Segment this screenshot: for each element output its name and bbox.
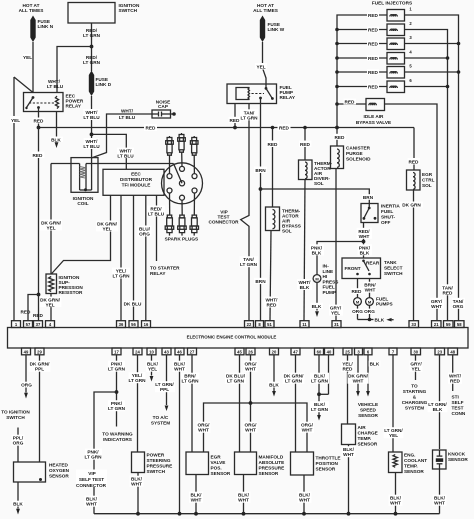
air charge temp sensor xyxy=(342,424,356,445)
svg-text:EGR: EGR xyxy=(211,455,222,460)
engine coolant temp sensor xyxy=(389,452,403,473)
injector 1 xyxy=(387,10,405,22)
svg-text:ORG: ORG xyxy=(13,441,24,446)
wire DK BLU TFI to pin 56 xyxy=(133,195,135,320)
svg-text:ELECTRONIC ENGINE CONTROL MODU: ELECTRONIC ENGINE CONTROL MODULE xyxy=(187,335,277,340)
svg-text:LINK W: LINK W xyxy=(268,27,285,32)
svg-text:BLK: BLK xyxy=(13,502,23,507)
svg-text:CTRL: CTRL xyxy=(422,178,435,183)
svg-text:STEERING: STEERING xyxy=(147,458,171,463)
svg-text:DK GRN: DK GRN xyxy=(402,203,421,208)
svg-text:ORG: ORG xyxy=(21,383,32,388)
pin 49 xyxy=(22,348,31,355)
svg-text:37: 37 xyxy=(36,322,41,327)
svg-text:REAR: REAR xyxy=(366,261,380,266)
pin 22 xyxy=(245,321,254,328)
svg-text:WHT: WHT xyxy=(343,452,354,457)
pin 30 xyxy=(411,348,421,355)
svg-text:PPL: PPL xyxy=(35,367,44,372)
svg-text:TO WARNING: TO WARNING xyxy=(102,432,133,437)
svg-text:LT GRN: LT GRN xyxy=(83,60,101,65)
svg-text:WHT: WHT xyxy=(431,304,442,309)
svg-text:ENG.: ENG. xyxy=(404,453,415,458)
in-line hi press fuel pump xyxy=(313,275,321,283)
svg-text:SELF: SELF xyxy=(452,400,464,405)
svg-text:POS.: POS. xyxy=(211,466,222,471)
svg-text:16: 16 xyxy=(144,322,149,327)
svg-text:YEL: YEL xyxy=(148,367,157,372)
EGR valve position sensor xyxy=(186,452,209,475)
wire BLK relay coil ground w arrow xyxy=(56,112,58,143)
spark plug 2 top xyxy=(178,133,186,166)
wire RED down to pins 57/37 xyxy=(38,128,40,321)
svg-text:CHARGING: CHARGING xyxy=(402,400,428,405)
svg-text:40: 40 xyxy=(327,349,332,354)
svg-text:CAP: CAP xyxy=(158,104,168,109)
wire BLK/YEL from pin 10 xyxy=(151,355,153,376)
manifold absolute pressure sensor xyxy=(235,452,257,475)
svg-text:RED: RED xyxy=(450,379,461,384)
svg-text:SWITCH: SWITCH xyxy=(147,469,166,474)
wire DK GRN/LT GRN from pin 47 xyxy=(295,355,297,452)
wire YEL/RED from pin 25 xyxy=(347,355,349,424)
svg-text:26: 26 xyxy=(248,349,253,354)
svg-text:EEC: EEC xyxy=(131,172,141,177)
svg-text:BYPASS VALVE: BYPASS VALVE xyxy=(356,120,391,125)
wire BLU/ORG TFI to pin 16 xyxy=(145,195,147,320)
svg-text:IDLE AIR: IDLE AIR xyxy=(364,114,384,119)
svg-text:LT GRN: LT GRN xyxy=(285,379,303,384)
wire YEL to fuel pump relay xyxy=(263,42,267,88)
pin 29 xyxy=(35,348,44,355)
svg-text:27: 27 xyxy=(190,349,195,354)
wire RED relay output xyxy=(38,108,40,128)
svg-text:PPL: PPL xyxy=(160,387,169,392)
wire BRN/LT GRN from pin 27 xyxy=(191,355,193,452)
thermactor air bypass solenoid xyxy=(272,128,274,208)
svg-text:TANK: TANK xyxy=(384,260,397,265)
wire DK GRN/PPL from pin 29 xyxy=(39,355,41,462)
svg-text:LINE: LINE xyxy=(323,269,334,274)
svg-text:RELAY: RELAY xyxy=(280,95,296,100)
svg-text:BLK: BLK xyxy=(360,250,370,255)
node VIP self test connector xyxy=(76,470,107,488)
svg-text:RED: RED xyxy=(345,100,356,105)
svg-text:PRESSURE: PRESSURE xyxy=(147,464,173,469)
svg-text:YEL: YEL xyxy=(331,311,340,316)
svg-text:LT BLU: LT BLU xyxy=(83,115,100,120)
pin 20 xyxy=(270,348,279,355)
svg-text:COIL: COIL xyxy=(77,201,88,206)
pin 48 xyxy=(448,348,458,355)
wire RED/LT BLU to starter relay xyxy=(156,195,158,261)
pin 23 xyxy=(435,348,445,355)
pin 57 xyxy=(24,321,33,328)
svg-text:RED: RED xyxy=(343,367,354,372)
svg-text:BLK: BLK xyxy=(312,250,322,255)
svg-text:SELECT: SELECT xyxy=(384,266,403,271)
svg-text:LT GRN: LT GRN xyxy=(84,455,102,460)
spark plug 3 top xyxy=(190,136,198,174)
svg-text:ORG: ORG xyxy=(453,304,464,309)
wire WHT/RED from pin 48 xyxy=(452,355,454,391)
svg-text:BLK: BLK xyxy=(370,362,380,367)
EEC power relay xyxy=(24,93,64,112)
fuse link D xyxy=(89,71,94,97)
svg-text:HI: HI xyxy=(323,274,328,279)
wire coil left to resistor xyxy=(51,163,80,165)
svg-text:ORG: ORG xyxy=(352,309,363,314)
svg-text:PUMPS: PUMPS xyxy=(376,302,393,307)
svg-text:TO A/C: TO A/C xyxy=(153,415,169,420)
svg-text:INERTIA: INERTIA xyxy=(381,204,400,209)
wire BLK/WHT ground bus xyxy=(94,513,440,515)
fuse link N xyxy=(30,16,35,43)
svg-text:11: 11 xyxy=(302,322,307,327)
svg-text:CHARGE: CHARGE xyxy=(358,431,378,436)
svg-text:PURGE: PURGE xyxy=(346,151,363,156)
svg-text:SHUT-: SHUT- xyxy=(381,215,396,220)
svg-text:RELAY: RELAY xyxy=(66,104,82,109)
svg-text:RED: RED xyxy=(409,160,420,165)
svg-text:PRESSURE: PRESSURE xyxy=(259,466,285,471)
wire DK GRN to pin 33 xyxy=(413,190,415,321)
svg-text:33: 33 xyxy=(411,322,416,327)
wire BLK from pin 20 xyxy=(273,355,275,391)
svg-text:LT GRN: LT GRN xyxy=(108,406,126,411)
wire GRY/YEL to pin 31 xyxy=(335,169,337,321)
svg-text:SENSOR: SENSOR xyxy=(211,471,231,476)
canister purge solenoid xyxy=(336,128,338,147)
wire ORG/WHT from pin 26 xyxy=(250,355,252,452)
svg-text:LT BLU: LT BLU xyxy=(119,115,136,120)
svg-text:SPARK PLUGS: SPARK PLUGS xyxy=(165,237,199,242)
svg-text:36: 36 xyxy=(119,322,124,327)
svg-text:49: 49 xyxy=(24,349,29,354)
power steering pressure switch xyxy=(132,452,145,473)
svg-text:23: 23 xyxy=(437,349,442,354)
spark plug 1 top xyxy=(166,136,174,174)
svg-text:VALVE: VALVE xyxy=(211,460,226,465)
svg-text:YEL: YEL xyxy=(45,302,54,307)
svg-text:HEATED: HEATED xyxy=(49,463,69,468)
svg-text:LT GRN: LT GRN xyxy=(83,33,101,38)
svg-text:MANIFOLD: MANIFOLD xyxy=(259,455,284,460)
pin 56 xyxy=(129,321,138,328)
svg-text:59: 59 xyxy=(446,322,451,327)
svg-text:CONNECTOR: CONNECTOR xyxy=(208,220,239,225)
wire DK GRN/YEL to pin 4 xyxy=(50,294,52,321)
svg-text:WHT: WHT xyxy=(174,367,185,372)
pin 47 xyxy=(291,348,300,355)
wire RED main bus xyxy=(39,127,415,129)
wire GRY/WHT idle air to pin 21 xyxy=(385,104,438,321)
svg-text:POSITION: POSITION xyxy=(316,461,339,466)
svg-text:SYSTEM: SYSTEM xyxy=(405,406,424,411)
pin 31 xyxy=(332,321,341,328)
pin 43 xyxy=(162,348,171,355)
pin 17 xyxy=(112,348,121,355)
wire YEL branch to pin 1 xyxy=(14,77,33,93)
fuel pump relay xyxy=(227,84,277,104)
svg-text:31: 31 xyxy=(334,322,339,327)
svg-text:RED: RED xyxy=(368,85,379,90)
svg-text:LT GRN: LT GRN xyxy=(108,367,126,372)
svg-text:ORG: ORG xyxy=(139,232,150,237)
svg-text:LINK N: LINK N xyxy=(38,24,54,29)
svg-text:46: 46 xyxy=(177,349,182,354)
svg-text:BLK: BLK xyxy=(312,304,322,309)
svg-text:YEL: YEL xyxy=(411,367,420,372)
wire PNK/LT GRN from pin 17 xyxy=(116,355,118,427)
wire RED injector feed bus xyxy=(337,15,387,128)
svg-text:BLK: BLK xyxy=(51,137,61,142)
svg-text:25: 25 xyxy=(345,349,350,354)
svg-text:FRONT: FRONT xyxy=(345,266,361,271)
wires ORG ORG to BLK ground xyxy=(357,305,359,319)
svg-text:SENSOR: SENSOR xyxy=(404,469,424,474)
wire RED/WHT from inertia xyxy=(363,223,365,259)
svg-text:BLK: BLK xyxy=(300,285,310,290)
wire DK GRN/YEL coil branch xyxy=(50,164,52,275)
svg-text:RED: RED xyxy=(443,290,454,295)
svg-text:YEL: YEL xyxy=(11,118,20,123)
svg-text:51: 51 xyxy=(267,322,272,327)
svg-text:FUEL: FUEL xyxy=(381,209,393,214)
wire TFI DK GRN/YEL to suppression resistor xyxy=(51,195,110,274)
pin 45 xyxy=(235,348,244,355)
pin 25 xyxy=(343,348,352,355)
svg-text:RED: RED xyxy=(368,56,379,61)
svg-text:POWER: POWER xyxy=(147,453,165,458)
wire WHT/RED to pin 51 xyxy=(270,231,271,321)
svg-text:LT GRN: LT GRN xyxy=(311,379,329,384)
injector 2 xyxy=(337,29,387,31)
pin 7 xyxy=(389,348,397,355)
wire TAN/ORG injector bus to pin 58 xyxy=(452,298,465,309)
svg-text:SENSOR: SENSOR xyxy=(358,413,378,418)
wire YEL/LT GRN from pin 24 xyxy=(137,355,139,452)
wire LT GRN/BLK from pin 23 xyxy=(439,355,441,449)
pin 16 xyxy=(142,321,151,328)
svg-text:RED: RED xyxy=(368,42,379,47)
svg-text:ORG: ORG xyxy=(364,309,375,314)
svg-text:SWITCH: SWITCH xyxy=(119,8,138,13)
wire YEL/LT GRN TFI to pin 36 xyxy=(120,195,122,320)
svg-text:57: 57 xyxy=(26,322,31,327)
svg-text:SPEED: SPEED xyxy=(360,408,377,413)
svg-text:EGR: EGR xyxy=(422,172,433,177)
svg-text:WHT: WHT xyxy=(434,501,445,506)
svg-text:LINK D: LINK D xyxy=(96,82,112,87)
wire BLK/WHT from pin 46 to ground bus xyxy=(179,355,181,514)
wire noise cap to coil xyxy=(92,114,152,158)
inertia fuel shutoff switch xyxy=(361,204,378,223)
wire RED/LT GRN from ignition switch xyxy=(91,23,93,71)
pin 10 xyxy=(147,348,156,355)
svg-text:WHT: WHT xyxy=(390,501,401,506)
svg-text:SOL: SOL xyxy=(282,229,292,234)
svg-text:YEL: YEL xyxy=(23,55,32,60)
svg-text:RED: RED xyxy=(21,310,32,315)
svg-text:RED: RED xyxy=(279,126,290,131)
svg-text:WHT: WHT xyxy=(245,428,256,433)
svg-text:PRESS: PRESS xyxy=(323,279,339,284)
wire PPL/ORG to heated oxygen sensor xyxy=(17,428,19,463)
wire PNK/LT GRN branch to self test connector xyxy=(94,392,117,514)
svg-text:SENSOR: SENSOR xyxy=(448,457,468,462)
pin 58 xyxy=(455,321,465,328)
spark plug 4 bottom xyxy=(165,193,174,236)
svg-text:WHT: WHT xyxy=(353,379,364,384)
wire DK BLU/LT GRN from pin 45 xyxy=(239,355,241,452)
svg-text:YEL: YEL xyxy=(389,433,398,438)
ignition switch xyxy=(68,3,115,24)
svg-text:BLK: BLK xyxy=(375,318,385,323)
svg-text:RESISTOR: RESISTOR xyxy=(59,290,83,295)
svg-text:WHT: WHT xyxy=(302,428,313,433)
pin 4 xyxy=(46,321,55,328)
svg-text:BRN: BRN xyxy=(363,195,374,200)
pin 33 xyxy=(409,321,419,328)
pin 37 xyxy=(34,321,43,328)
tank select switch xyxy=(342,258,381,279)
svg-text:LT GRN: LT GRN xyxy=(240,262,258,267)
wire LT GRN/PPL from pin 43 xyxy=(166,355,168,405)
svg-text:RED: RED xyxy=(33,153,44,158)
svg-text:DK BLU: DK BLU xyxy=(124,302,142,307)
ignition coil xyxy=(71,158,98,193)
svg-text:30: 30 xyxy=(413,349,418,354)
svg-text:RED: RED xyxy=(267,303,278,308)
pin 46 xyxy=(175,348,184,355)
svg-text:YEL: YEL xyxy=(102,227,111,232)
pin 1 xyxy=(12,321,21,328)
pin 24 xyxy=(133,348,142,355)
svg-text:RED: RED xyxy=(368,70,379,75)
svg-text:10: 10 xyxy=(149,349,154,354)
svg-text:CANISTER: CANISTER xyxy=(346,146,371,151)
wire WHT/LT BLU to TFI module xyxy=(92,134,127,169)
svg-text:29: 29 xyxy=(37,349,42,354)
svg-text:WHT/: WHT/ xyxy=(121,108,134,113)
svg-text:43: 43 xyxy=(164,349,169,354)
svg-text:TO IGNITION: TO IGNITION xyxy=(1,410,30,415)
svg-text:SENSOR: SENSOR xyxy=(49,474,69,479)
node BRN branch to inertia switch xyxy=(259,187,263,191)
svg-text:YEL: YEL xyxy=(256,65,265,70)
EGR control solenoid xyxy=(413,128,415,171)
svg-text:20: 20 xyxy=(272,349,277,354)
svg-text:CONNECTOR: CONNECTOR xyxy=(76,483,107,488)
wire RED fuel pump relay to bus xyxy=(234,104,236,128)
svg-text:48: 48 xyxy=(450,349,455,354)
svg-text:SOLENOID: SOLENOID xyxy=(346,157,371,162)
svg-text:56: 56 xyxy=(131,322,136,327)
svg-text:WHT: WHT xyxy=(191,498,202,503)
wire DK GRN/WHT from pin 3 xyxy=(357,355,359,391)
svg-text:RED: RED xyxy=(146,126,157,131)
svg-text:SOL: SOL xyxy=(314,181,324,186)
injector 4 xyxy=(337,57,387,59)
svg-text:WHT: WHT xyxy=(86,502,97,507)
node junction to TFI feed xyxy=(90,133,94,137)
svg-text:OXYGEN: OXYGEN xyxy=(49,468,70,473)
heated oxygen sensor xyxy=(14,462,46,482)
pin 26 xyxy=(246,348,255,355)
svg-text:OFF: OFF xyxy=(381,220,391,225)
wire ORG from pin 49 to ignition switch xyxy=(25,355,27,393)
svg-text:SENSOR: SENSOR xyxy=(259,471,279,476)
svg-text:LT GRN: LT GRN xyxy=(181,379,199,384)
node junction xyxy=(90,45,94,49)
svg-text:22: 22 xyxy=(247,322,252,327)
svg-text:YEL: YEL xyxy=(46,226,55,231)
svg-text:47: 47 xyxy=(293,349,298,354)
svg-text:LT GRN: LT GRN xyxy=(311,407,329,412)
svg-text:KNOCK: KNOCK xyxy=(448,452,466,457)
svg-text:WHT: WHT xyxy=(198,428,209,433)
svg-text:SOL: SOL xyxy=(422,183,432,188)
svg-text:WHT: WHT xyxy=(299,498,310,503)
svg-text:SYSTEM: SYSTEM xyxy=(151,421,170,426)
fuel pumps xyxy=(354,298,362,306)
pin 36 xyxy=(117,321,126,328)
wire TAN/RED injector bus to pin 59 xyxy=(442,284,455,295)
wire BRN to pin 8 xyxy=(260,98,262,321)
svg-text:BRN: BRN xyxy=(255,279,266,284)
svg-text:ABSOLUTE: ABSOLUTE xyxy=(259,460,285,465)
wires to fuel pumps xyxy=(357,279,359,298)
svg-text:LT GRN: LT GRN xyxy=(128,378,146,383)
svg-text:DISTRIBUTOR: DISTRIBUTOR xyxy=(120,177,153,182)
svg-text:LT BLU: LT BLU xyxy=(117,154,134,159)
idle air bypass valve xyxy=(337,103,366,105)
svg-text:SWITCH: SWITCH xyxy=(6,415,25,420)
svg-text:RED: RED xyxy=(268,142,279,147)
svg-text:TEST: TEST xyxy=(452,406,464,411)
svg-text:CONN: CONN xyxy=(452,411,466,416)
ignition suppression resistor xyxy=(46,274,57,294)
svg-text:INDICATORS: INDICATORS xyxy=(103,437,132,442)
spark plug 6 bottom xyxy=(190,193,199,236)
svg-text:BLK: BLK xyxy=(269,383,279,388)
svg-text:TFI MODULE: TFI MODULE xyxy=(122,183,151,188)
spark plug 5 bottom xyxy=(178,200,187,235)
svg-text:LT BLU: LT BLU xyxy=(83,144,100,149)
wire TAN/LT GRN to pin 22 xyxy=(241,104,249,321)
pin 59 xyxy=(444,321,454,328)
svg-text:TEMP.: TEMP. xyxy=(358,436,372,441)
svg-text:RELAY: RELAY xyxy=(150,271,166,276)
pin 6 xyxy=(364,348,372,355)
wire YEL fuse N to relay xyxy=(32,42,34,93)
svg-text:RED: RED xyxy=(368,13,379,18)
svg-text:RED: RED xyxy=(352,289,363,294)
svg-text:17: 17 xyxy=(114,349,119,354)
svg-text:IN-: IN- xyxy=(323,264,330,269)
svg-text:WHT: WHT xyxy=(238,498,249,503)
svg-text:RED: RED xyxy=(230,118,241,123)
svg-text:WHT: WHT xyxy=(131,482,142,487)
injector 5 xyxy=(337,71,387,73)
wire WHT/LT BLU below fuse D xyxy=(91,96,93,190)
svg-text:TO: TO xyxy=(411,384,418,389)
svg-text:LT BLU: LT BLU xyxy=(47,84,64,89)
svg-text:BLK: BLK xyxy=(433,407,443,412)
svg-text:SENSOR: SENSOR xyxy=(358,442,378,447)
wire WHT/BLK to pin 11 xyxy=(304,180,305,321)
